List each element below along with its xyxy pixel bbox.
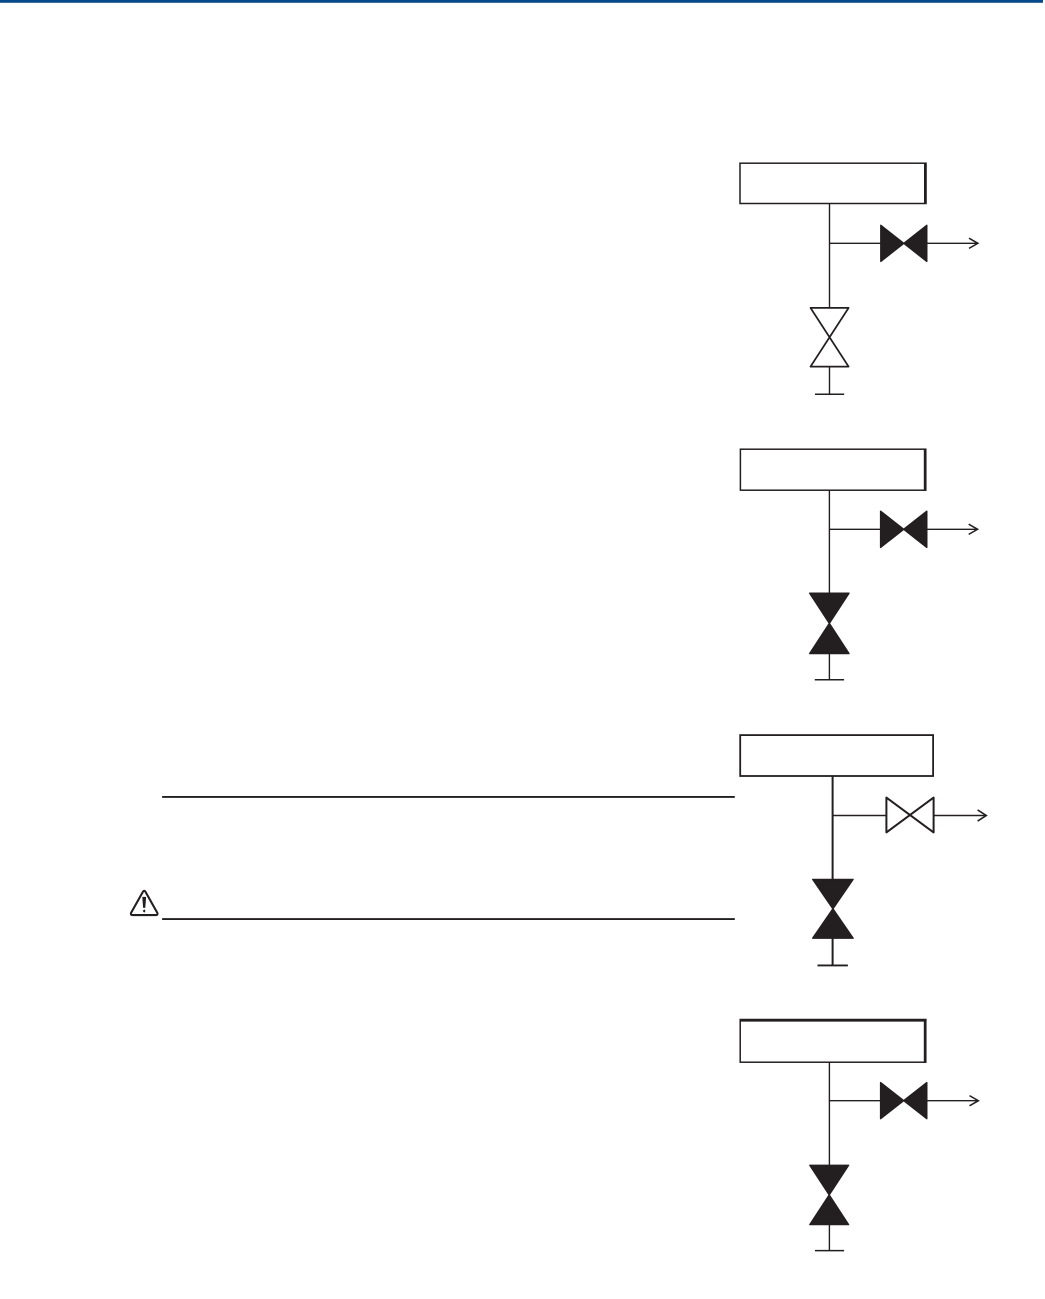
arrow (flow direction, diagram 4) <box>970 1096 979 1106</box>
valve V1 closed (diagram 1) <box>881 225 927 261</box>
arrow (flow direction, diagram 3) <box>978 810 987 821</box>
valve V4 closed (diagram 2) <box>810 593 849 653</box>
wire (branch to valve V5, diagram 3) <box>833 815 887 817</box>
valve V5 open (diagram 3) <box>886 798 933 833</box>
box B4 (regulator outlet, diagram 4) <box>740 1020 927 1063</box>
box B3 (regulator outlet, diagram 3) <box>740 735 933 776</box>
arrow (flow direction, diagram 1) <box>969 238 978 248</box>
vent symbol (diagram 1) <box>815 393 844 395</box>
box B1 (regulator outlet, diagram 1) <box>740 163 926 204</box>
section rule (upper) <box>162 796 735 798</box>
wire (branch to outlet, diagram 1) <box>830 242 978 244</box>
arrow (flow direction, diagram 2) <box>969 524 978 534</box>
wire (V2 to vent, diagram 1) <box>829 367 831 394</box>
header rule (blue page band) <box>0 0 1043 3</box>
wire (B2 bottom to valve V4 top) <box>828 490 830 594</box>
wire (branch to outlet, diagram 4) <box>829 1100 977 1102</box>
box B2 (regulator outlet, diagram 2) <box>740 449 925 491</box>
valve V8 closed (diagram 4) <box>810 1165 849 1224</box>
wire (B4 bottom to valve V8 top) <box>828 1062 830 1166</box>
wire (valve V5 to outlet, diagram 3) <box>934 815 985 817</box>
wire (B1 bottom to valve V2 top) <box>829 204 831 309</box>
valve V2 open (diagram 1) <box>811 308 849 367</box>
wire (V8 to vent, diagram 4) <box>828 1225 830 1251</box>
warning triangle <box>131 891 158 915</box>
vent symbol (diagram 3) <box>818 964 848 966</box>
wire (branch to outlet, diagram 2) <box>829 528 976 530</box>
section rule (lower) <box>162 918 735 920</box>
valve V7 closed (diagram 4) <box>881 1083 927 1119</box>
vent symbol (diagram 2) <box>815 679 844 681</box>
wire (V6 to vent, diagram 3) <box>832 938 834 965</box>
wire (B3 bottom to valve V6 top) <box>832 776 834 880</box>
vent symbol (diagram 4) <box>815 1250 844 1252</box>
valve V3 closed (diagram 2) <box>881 511 927 547</box>
wire (V4 to vent, diagram 2) <box>828 654 830 680</box>
valve V6 closed (diagram 3) <box>813 879 853 938</box>
